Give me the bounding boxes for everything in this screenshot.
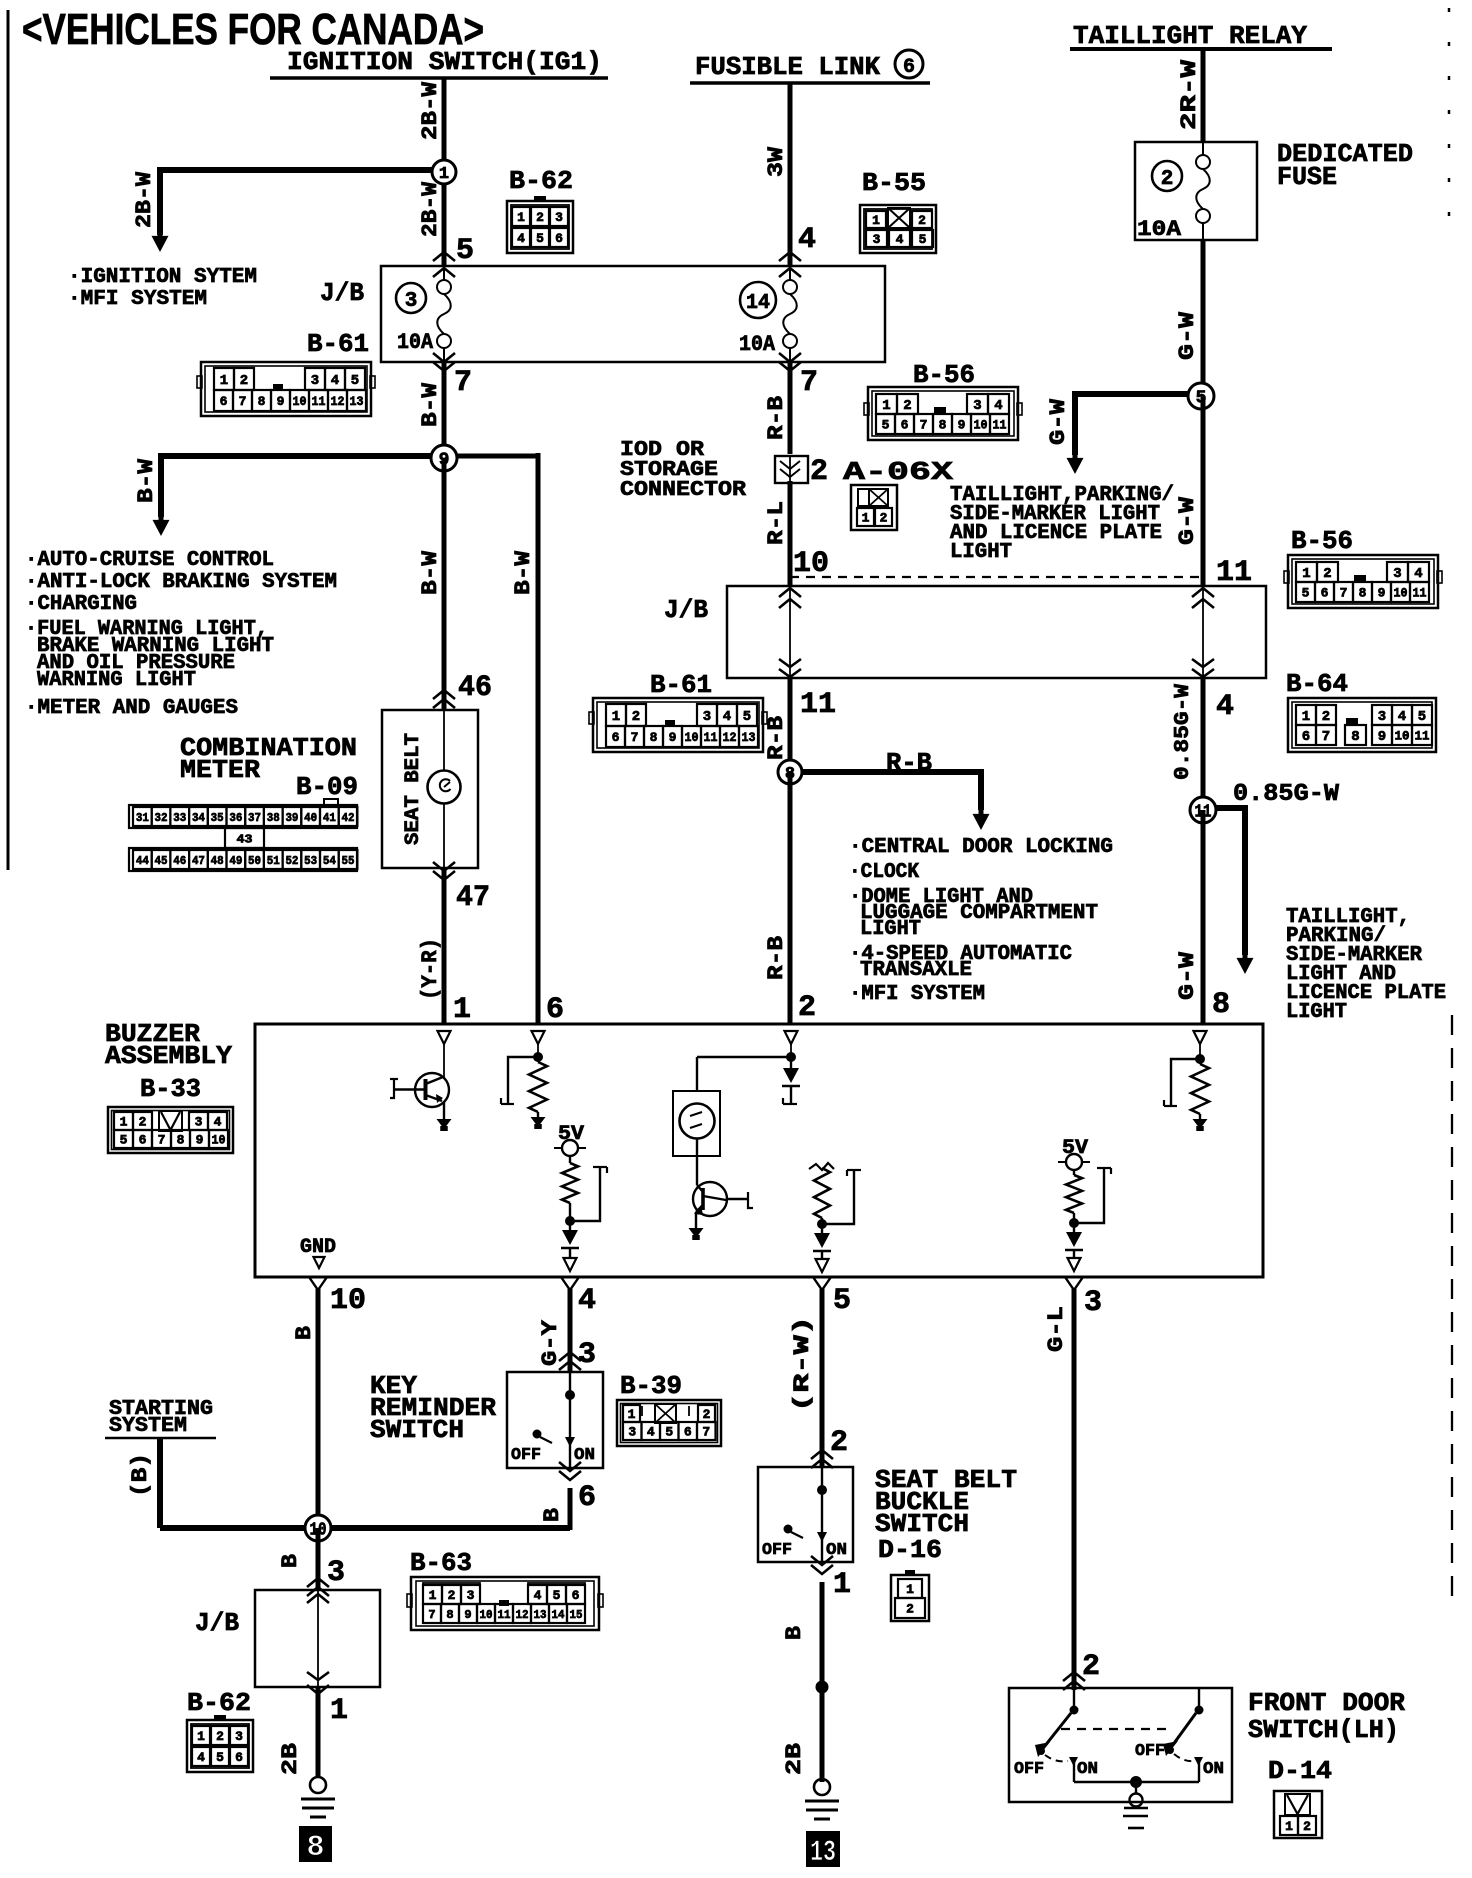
svg-text:·MFI SYSTEM: ·MFI SYSTEM <box>849 983 985 1006</box>
transistor Q2 <box>693 1182 727 1216</box>
wire branch from node 9 to pin 6 wire <box>444 454 538 459</box>
svg-text:3W: 3W <box>764 146 789 177</box>
connector B-62 body <box>507 201 573 253</box>
buzzer pin 1 entry mark <box>438 1031 451 1044</box>
svg-text:13: 13 <box>810 1836 836 1870</box>
fuse 3 circled label <box>396 283 426 313</box>
svg-text:WARNING LIGHT: WARNING LIGHT <box>37 669 196 692</box>
svg-text:8: 8 <box>939 418 947 433</box>
svg-text:FUSE: FUSE <box>1277 162 1337 192</box>
wire R-L to J/B 2 <box>788 481 793 586</box>
svg-text:5: 5 <box>120 1133 128 1148</box>
wire branch from node 9 to warning systems arrow <box>161 453 444 459</box>
svg-text:B-62: B-62 <box>187 1688 251 1718</box>
buzzer pin 4 exit mark <box>564 1258 577 1271</box>
svg-text:ON: ON <box>826 1541 847 1560</box>
svg-text:10: 10 <box>480 1608 493 1622</box>
svg-text:3: 3 <box>327 1556 345 1590</box>
svg-text:3: 3 <box>578 1338 596 1372</box>
dedicated fuse box <box>1135 142 1257 240</box>
fuse 3 symbol <box>443 266 445 280</box>
svg-text:6: 6 <box>903 56 915 79</box>
junction dot pin 4 <box>566 1217 575 1226</box>
svg-text:5: 5 <box>665 1425 673 1440</box>
svg-text:R-B: R-B <box>764 936 789 980</box>
svg-text:3: 3 <box>1378 709 1386 725</box>
svg-text:53: 53 <box>304 854 317 868</box>
svg-text:(B): (B) <box>128 1453 153 1497</box>
svg-text:54: 54 <box>323 854 336 868</box>
resistor R3 squiggle top (pin 5) <box>809 1163 834 1170</box>
svg-text:B: B <box>540 1508 565 1522</box>
IOD connector symbol <box>775 456 808 483</box>
svg-text:1: 1 <box>1285 1819 1293 1834</box>
resistor R3 <box>814 1168 830 1218</box>
svg-text:R-B: R-B <box>886 748 932 778</box>
svg-text:4: 4 <box>517 231 525 246</box>
svg-text:6: 6 <box>555 231 563 246</box>
ground symbol front door switch <box>1135 1782 1137 1794</box>
svg-text:B-W: B-W <box>418 382 443 427</box>
chevrons out of combination meter pin 47 <box>433 871 455 880</box>
svg-text:1: 1 <box>120 1115 128 1130</box>
svg-text:G-Y: G-Y <box>538 1319 563 1366</box>
resistor R5 ground <box>1199 1114 1201 1119</box>
ground symbol bottom left <box>310 1777 326 1793</box>
svg-text:2: 2 <box>1161 168 1174 191</box>
chevrons into seat belt buckle switch <box>811 1450 833 1459</box>
svg-text:9: 9 <box>277 394 285 409</box>
svg-text:·MFI SYSTEM: ·MFI SYSTEM <box>68 288 207 311</box>
svg-text:B-64: B-64 <box>1286 669 1348 699</box>
left page edge line <box>7 10 10 870</box>
svg-text:6: 6 <box>235 1750 243 1765</box>
svg-text:8: 8 <box>1359 586 1367 601</box>
svg-text:5: 5 <box>456 234 474 268</box>
page tag 8 <box>299 1826 332 1862</box>
svg-text:1: 1 <box>453 993 471 1027</box>
svg-text:1: 1 <box>833 1568 851 1602</box>
svg-text:3: 3 <box>405 290 418 313</box>
seat belt buckle switch arm <box>784 1525 792 1533</box>
svg-text:R-L: R-L <box>764 501 789 545</box>
combination meter SEAT BELT box <box>382 710 478 868</box>
svg-text:ASSEMBLY: ASSEMBLY <box>105 1041 232 1071</box>
svg-text:36: 36 <box>229 811 242 825</box>
svg-text:2: 2 <box>1082 1650 1100 1684</box>
connector B-55 body <box>860 205 936 253</box>
connector B-64 body <box>1288 698 1436 752</box>
wire R-B from J/B to IOD connector <box>788 362 793 454</box>
svg-text:4: 4 <box>214 1115 222 1130</box>
svg-text:9: 9 <box>196 1133 204 1148</box>
svg-text:CONNECTOR: CONNECTOR <box>620 479 746 502</box>
svg-text:15: 15 <box>570 1608 583 1622</box>
svg-text:11: 11 <box>1413 586 1427 601</box>
wire R-B from J/B2 to node 8 <box>788 678 793 772</box>
svg-text:·IGNITION SYTEM: ·IGNITION SYTEM <box>68 266 257 289</box>
svg-text:·CLOCK: ·CLOCK <box>849 861 919 884</box>
svg-text:9: 9 <box>464 1608 471 1622</box>
svg-text:J/B: J/B <box>195 1608 239 1638</box>
page edge dashes <box>1448 8 1451 245</box>
svg-text:4: 4 <box>534 1588 542 1603</box>
svg-text:2: 2 <box>903 398 911 414</box>
junction block J/B box <box>381 266 885 362</box>
buzzer pin 8 entry mark <box>1194 1031 1207 1044</box>
svg-text:TRANSAXLE: TRANSAXLE <box>860 959 972 982</box>
chevrons out of seat belt buckle switch <box>811 1556 833 1565</box>
junction dot pin 3 <box>1070 1219 1079 1228</box>
svg-text:7: 7 <box>454 366 472 400</box>
wire G-Y buzzer to key reminder switch <box>568 1288 573 1372</box>
5V supply circle (pin 4) <box>554 1147 586 1149</box>
chevron out of J/B3 <box>307 1685 329 1694</box>
svg-text:1: 1 <box>429 1588 437 1603</box>
svg-text:39: 39 <box>285 811 298 825</box>
connector B-62 body (bottom) <box>187 1720 253 1772</box>
svg-text:10A: 10A <box>739 332 776 357</box>
svg-text:7: 7 <box>702 1425 710 1440</box>
svg-text:B-56: B-56 <box>1291 526 1353 556</box>
connector B-33 body <box>108 1107 233 1153</box>
svg-text:B-W: B-W <box>511 550 536 595</box>
front door right wire <box>1198 1688 1200 1710</box>
svg-text:B-09: B-09 <box>296 772 358 802</box>
svg-text:GND: GND <box>300 1236 336 1259</box>
buzzer pin 3 exit mark <box>1068 1258 1081 1271</box>
svg-text:3: 3 <box>235 1729 243 1744</box>
svg-text:5: 5 <box>743 709 751 725</box>
wire inside J/B2 taillight column <box>1202 586 1204 678</box>
front door left switch <box>1070 1706 1078 1714</box>
svg-text:12: 12 <box>331 394 345 409</box>
svg-text:8: 8 <box>650 730 658 745</box>
connector B-39 body <box>617 1400 721 1446</box>
svg-text:7: 7 <box>1340 586 1348 601</box>
transistor Q1 (buzzer drive) <box>415 1073 449 1107</box>
svg-text:G-W: G-W <box>1175 951 1200 1000</box>
buzzer pin 3 exit fork <box>1065 1277 1083 1290</box>
wire G-W node5 to J/B2 <box>1201 396 1206 586</box>
wire inside seat belt box <box>443 710 445 771</box>
resistor R2 <box>569 1156 571 1163</box>
diode D3 (pin 5) <box>821 1224 823 1233</box>
svg-text:B-61: B-61 <box>650 670 712 700</box>
resistor R1 hook lead <box>508 1057 538 1104</box>
wire R-B node 8 to buzzer pin 2 <box>788 772 793 1024</box>
svg-text:2: 2 <box>632 709 640 725</box>
svg-text:1: 1 <box>872 213 880 228</box>
svg-text:6: 6 <box>1321 586 1329 601</box>
svg-text:5: 5 <box>536 231 544 246</box>
connector pass chevrons into J/B pin 5 <box>433 252 455 261</box>
svg-text:6: 6 <box>546 993 564 1027</box>
svg-text:·ANTI-LOCK BRAKING SYSTEM: ·ANTI-LOCK BRAKING SYSTEM <box>25 571 337 594</box>
svg-text:SYSTEM: SYSTEM <box>109 1415 187 1438</box>
svg-text:47: 47 <box>456 881 490 915</box>
svg-text:R-B: R-B <box>764 716 789 760</box>
svg-text:4: 4 <box>331 373 339 389</box>
svg-text:51: 51 <box>267 854 280 868</box>
svg-text:9: 9 <box>1378 586 1386 601</box>
svg-text:13: 13 <box>350 394 364 409</box>
resistor R1 <box>529 1062 547 1112</box>
GND pin mark <box>314 1257 325 1268</box>
5V supply circle (pin 3) <box>1058 1161 1090 1163</box>
svg-text:2B: 2B <box>278 1743 303 1775</box>
svg-text:FUSIBLE LINK: FUSIBLE LINK <box>695 52 880 82</box>
svg-text:3: 3 <box>1393 566 1401 582</box>
wire B-W from J/B to node 9 <box>442 362 447 458</box>
svg-text:2: 2 <box>830 1426 848 1460</box>
wire B-W down to combination meter <box>442 458 447 710</box>
svg-text:B-63: B-63 <box>410 1548 472 1578</box>
junction dot pin 8 <box>1196 1055 1205 1064</box>
svg-text:43: 43 <box>237 832 253 846</box>
transistor Q2 emitter lead hook <box>727 1198 748 1200</box>
wire B from buzzer GND to node 10 <box>316 1288 321 1530</box>
wire branch node 8 to door locking arrow <box>790 769 981 775</box>
svg-text:10: 10 <box>685 730 699 745</box>
ground symbol seat belt buckle <box>814 1779 830 1795</box>
page tag 13 <box>806 1831 840 1867</box>
resistor R5 <box>1191 1064 1209 1114</box>
chevrons out of key reminder switch <box>559 1462 581 1471</box>
svg-text:SWITCH: SWITCH <box>370 1415 464 1445</box>
transistor Q2 ground <box>695 1212 697 1228</box>
svg-text:G-W: G-W <box>1175 496 1200 545</box>
svg-text:2: 2 <box>1322 709 1330 725</box>
svg-text:1: 1 <box>1302 709 1310 725</box>
buzzer pin 5 exit fork <box>813 1277 831 1290</box>
seat belt warning lamp <box>428 771 461 804</box>
node 9 junction <box>431 445 457 471</box>
comparator hook lead (pin 3) <box>1074 1168 1104 1223</box>
svg-text:3: 3 <box>973 398 981 414</box>
svg-text:2: 2 <box>448 1588 456 1603</box>
chevrons into key reminder switch <box>559 1352 581 1361</box>
svg-text:OFF: OFF <box>762 1541 792 1560</box>
front door switch left wire <box>1073 1688 1075 1710</box>
svg-text:11: 11 <box>1415 729 1430 744</box>
svg-text:5: 5 <box>216 1750 224 1765</box>
svg-text:10: 10 <box>974 418 988 433</box>
svg-text:B-W: B-W <box>134 458 159 503</box>
svg-text:3: 3 <box>703 709 711 725</box>
svg-text:1: 1 <box>628 1407 636 1422</box>
dashed bus line into J/B 2 <box>790 576 1203 578</box>
node 1 junction <box>432 160 456 184</box>
svg-text:ON: ON <box>1203 1760 1224 1779</box>
svg-text:11: 11 <box>704 730 718 745</box>
node 5 junction <box>1188 383 1214 409</box>
wire G-L buzzer to front door switch <box>1072 1288 1077 1690</box>
svg-text:2: 2 <box>536 210 544 225</box>
svg-text:44: 44 <box>136 854 149 868</box>
junction dot pin 6 <box>534 1053 543 1062</box>
junction dot on buckle ground wire <box>816 1681 828 1693</box>
svg-text:B-62: B-62 <box>509 166 573 196</box>
svg-text:6: 6 <box>139 1133 147 1148</box>
svg-text:·CHARGING: ·CHARGING <box>25 593 137 616</box>
svg-text:2: 2 <box>240 373 248 389</box>
svg-text:4: 4 <box>896 232 904 247</box>
chevrons into combination meter pin 46 <box>433 690 455 699</box>
diode D1 (pin 4) <box>569 1221 571 1230</box>
svg-text:9: 9 <box>669 730 677 745</box>
buzzer pin 10 exit fork <box>309 1277 327 1290</box>
wire from pin 2 to buzzer <box>697 1056 791 1058</box>
svg-text:2: 2 <box>1303 1819 1311 1834</box>
wire inside J/B2 fusible column <box>789 586 791 678</box>
svg-text:8: 8 <box>1212 988 1230 1022</box>
fuse 2 circled label <box>1152 161 1182 191</box>
svg-text:10A: 10A <box>397 330 434 355</box>
svg-text:7: 7 <box>1322 729 1330 745</box>
seat belt buckle junction dot <box>818 1486 827 1495</box>
connector B-56 body (first) <box>868 387 1018 440</box>
svg-text:1: 1 <box>906 1582 914 1597</box>
svg-text:4: 4 <box>197 1750 205 1765</box>
svg-text:42: 42 <box>342 811 355 825</box>
chevrons into J/B3 <box>307 1578 329 1587</box>
svg-text:TAILLIGHT RELAY: TAILLIGHT RELAY <box>1073 21 1307 51</box>
svg-text:2: 2 <box>810 455 828 489</box>
svg-text:1: 1 <box>612 709 620 725</box>
seat belt buckle switch box <box>758 1467 853 1562</box>
svg-text:ON: ON <box>574 1446 595 1465</box>
wire G-W node 11 to buzzer pin 8 <box>1201 810 1206 1024</box>
svg-text:B-W: B-W <box>418 550 443 595</box>
svg-text:32: 32 <box>155 811 168 825</box>
resistor R5 hook lead <box>1171 1059 1200 1106</box>
svg-text:METER: METER <box>180 755 260 785</box>
wire 0.85G-W from J/B2 to node 11 <box>1201 678 1206 810</box>
svg-text:1: 1 <box>330 1694 348 1728</box>
key reminder junction dot <box>566 1391 575 1400</box>
svg-text:46: 46 <box>458 671 492 705</box>
connector B-61 body (second) <box>593 698 763 752</box>
svg-text:IGNITION SWITCH(IG1): IGNITION SWITCH(IG1) <box>287 47 602 77</box>
svg-text:6: 6 <box>220 394 228 409</box>
svg-text:B-61: B-61 <box>307 329 369 359</box>
svg-text:LIGHT: LIGHT <box>950 541 1012 564</box>
diode D2 (pin 2) <box>790 1057 792 1068</box>
svg-text:3: 3 <box>628 1425 636 1440</box>
svg-text:LIGHT: LIGHT <box>1286 1001 1347 1024</box>
svg-text:4: 4 <box>994 398 1002 414</box>
svg-text:B: B <box>278 1554 303 1568</box>
svg-text:55: 55 <box>342 854 355 868</box>
buzzer pin 4 exit fork <box>561 1277 579 1290</box>
svg-text:3: 3 <box>467 1588 475 1603</box>
svg-text:34: 34 <box>192 811 205 825</box>
svg-text:4: 4 <box>798 223 816 257</box>
diode D4 (pin 3) <box>1073 1223 1075 1232</box>
connector B-61 body (left) <box>201 362 371 416</box>
svg-text:(Y-R): (Y-R) <box>418 938 443 1000</box>
wire B buckle switch to ground <box>820 1582 825 1782</box>
svg-text:SEAT BELT: SEAT BELT <box>402 733 425 845</box>
wire inside J/B3 <box>317 1590 319 1687</box>
svg-text:R-B: R-B <box>764 396 789 440</box>
fuse 14 symbol <box>789 266 791 280</box>
svg-text:4: 4 <box>647 1425 655 1440</box>
svg-text:D-16: D-16 <box>878 1535 942 1565</box>
svg-text:·AUTO-CRUISE CONTROL: ·AUTO-CRUISE CONTROL <box>25 549 274 572</box>
svg-text:50: 50 <box>248 854 261 868</box>
svg-text:2: 2 <box>703 1407 711 1422</box>
dashed link between door switch arms <box>1061 1728 1173 1730</box>
connector D-14 body <box>1274 1791 1322 1838</box>
svg-text:OFF: OFF <box>1135 1742 1165 1761</box>
seat belt buckle switch wire <box>821 1467 823 1562</box>
wire branch node 11 to taillight text arrow <box>1203 805 1245 811</box>
svg-text:B-33: B-33 <box>140 1074 201 1104</box>
wire (Y-R) from meter to buzzer pin 1 <box>442 868 447 1024</box>
svg-text:4: 4 <box>578 1284 596 1318</box>
svg-text:7: 7 <box>158 1133 166 1148</box>
svg-text:B-56: B-56 <box>913 360 975 390</box>
svg-text:OFF: OFF <box>1014 1760 1044 1779</box>
wire B node 10 to J/B3 <box>316 1528 321 1590</box>
svg-text:5: 5 <box>1302 586 1310 601</box>
svg-text:G-L: G-L <box>1044 1306 1069 1352</box>
svg-text:2: 2 <box>880 511 888 526</box>
svg-text:1: 1 <box>882 398 890 414</box>
wire (B) from starting system to node 10 <box>157 1438 163 1528</box>
svg-text:35: 35 <box>211 811 224 825</box>
svg-text:47: 47 <box>192 854 205 868</box>
svg-text:5: 5 <box>882 418 890 433</box>
junction dot front door bus <box>1131 1777 1142 1788</box>
connector B-09 body rows <box>129 805 357 828</box>
key reminder switch box <box>507 1372 603 1468</box>
svg-text:7: 7 <box>239 394 247 409</box>
svg-text:2B-W: 2B-W <box>418 81 443 140</box>
svg-text:10: 10 <box>293 394 307 409</box>
svg-text:7: 7 <box>428 1608 435 1622</box>
svg-text:2: 2 <box>906 1602 914 1617</box>
svg-text:3: 3 <box>555 210 563 225</box>
wire 2R-W from taillight relay <box>1201 49 1206 142</box>
svg-text:G-W: G-W <box>1175 311 1200 360</box>
svg-text:52: 52 <box>285 854 298 868</box>
connector B-56 body (second) <box>1288 555 1438 608</box>
connector pass chevrons into J/B pin 4 <box>779 252 801 261</box>
svg-text:8: 8 <box>446 1608 453 1622</box>
svg-text:14: 14 <box>552 1608 565 1622</box>
svg-text:2B-W: 2B-W <box>132 171 157 228</box>
svg-text:11: 11 <box>312 394 326 409</box>
svg-text:1: 1 <box>862 511 870 526</box>
chevrons into front door switch <box>1063 1672 1085 1681</box>
svg-text:2: 2 <box>798 991 816 1025</box>
node 11 junction <box>1190 797 1216 823</box>
comparator hook lead (pin 4) <box>570 1167 600 1221</box>
svg-text:7: 7 <box>800 366 818 400</box>
buzzer pin 6 entry mark <box>532 1031 545 1044</box>
svg-text:B-39: B-39 <box>620 1371 682 1401</box>
svg-text:10: 10 <box>212 1133 226 1148</box>
svg-text:8: 8 <box>258 394 266 409</box>
svg-text:5: 5 <box>919 232 927 247</box>
svg-text:14: 14 <box>746 292 770 315</box>
transistor Q1 emitter ground <box>443 1101 445 1119</box>
junction dot pin 2 <box>787 1053 796 1062</box>
svg-text:1: 1 <box>197 1729 205 1744</box>
